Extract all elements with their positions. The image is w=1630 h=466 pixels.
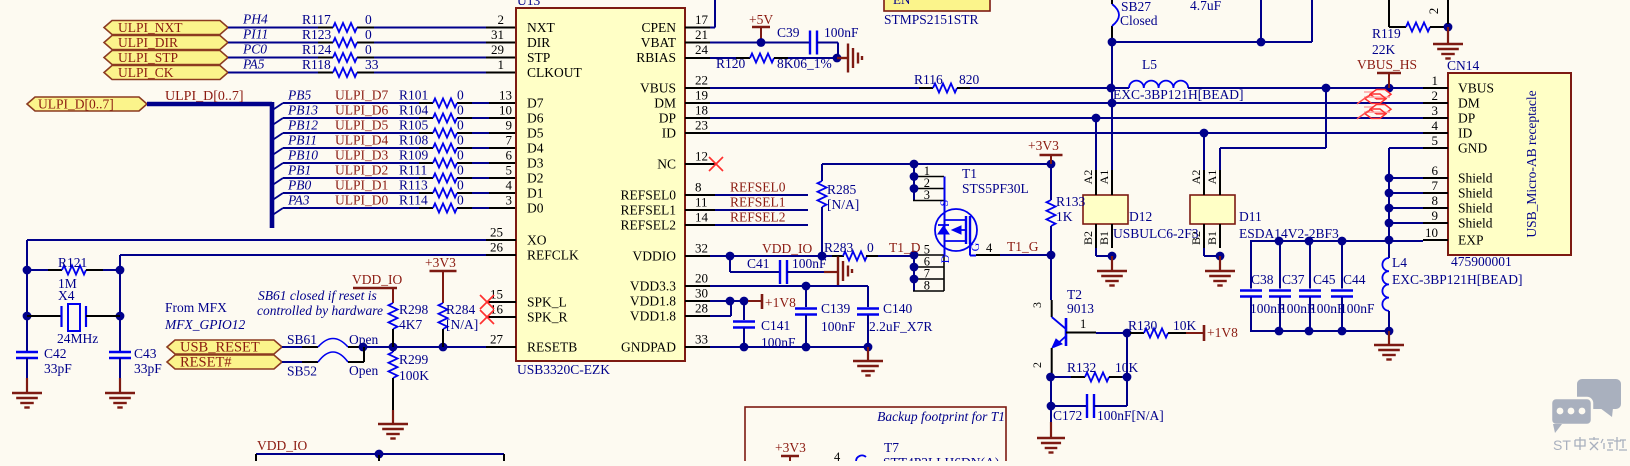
svg-text:MFX_GPIO12: MFX_GPIO12 bbox=[164, 317, 245, 332]
svg-text:R133: R133 bbox=[1056, 194, 1086, 209]
svg-text:PB13: PB13 bbox=[287, 103, 318, 118]
svg-text:VDD3.3: VDD3.3 bbox=[630, 279, 676, 294]
svg-text:D12: D12 bbox=[1129, 209, 1152, 224]
svg-text:19: 19 bbox=[695, 88, 708, 103]
svg-text:100nF: 100nF bbox=[1340, 301, 1375, 316]
svg-text:A2: A2 bbox=[1081, 170, 1095, 185]
svg-text:0: 0 bbox=[457, 178, 464, 193]
svg-text:20: 20 bbox=[695, 271, 708, 286]
svg-text:REFSEL2: REFSEL2 bbox=[730, 210, 786, 225]
svg-text:4: 4 bbox=[986, 241, 993, 255]
svg-text:D1: D1 bbox=[527, 186, 544, 201]
svg-text:10K: 10K bbox=[1173, 318, 1197, 333]
svg-text:R113: R113 bbox=[399, 178, 428, 193]
svg-text:7: 7 bbox=[1432, 178, 1439, 193]
svg-text:CPEN: CPEN bbox=[641, 20, 676, 35]
svg-text:R130: R130 bbox=[1128, 318, 1158, 333]
svg-text:4: 4 bbox=[506, 178, 513, 193]
svg-text:R120: R120 bbox=[716, 56, 746, 71]
svg-text:100nF: 100nF bbox=[761, 335, 796, 350]
svg-text:0: 0 bbox=[365, 12, 372, 27]
svg-text:8K06_1%: 8K06_1% bbox=[777, 56, 832, 71]
svg-text:XO: XO bbox=[527, 233, 547, 248]
svg-text:24MHz: 24MHz bbox=[57, 331, 98, 346]
svg-text:4: 4 bbox=[834, 450, 841, 461]
svg-text:PB12: PB12 bbox=[287, 118, 318, 133]
svg-text:Shield: Shield bbox=[1458, 171, 1493, 186]
svg-text:PB5: PB5 bbox=[287, 88, 311, 103]
svg-text:0: 0 bbox=[365, 42, 372, 57]
svg-text:ULPI_STP: ULPI_STP bbox=[118, 50, 178, 65]
svg-text:10: 10 bbox=[499, 103, 512, 118]
svg-text:REFSEL0: REFSEL0 bbox=[730, 180, 786, 195]
svg-text:29: 29 bbox=[491, 42, 504, 57]
svg-text:8: 8 bbox=[1432, 193, 1439, 208]
svg-text:ULPI_CK: ULPI_CK bbox=[118, 65, 174, 80]
svg-text:R299: R299 bbox=[399, 352, 429, 367]
svg-text:R283: R283 bbox=[824, 240, 854, 255]
svg-text:CN14: CN14 bbox=[1447, 58, 1480, 73]
svg-text:12: 12 bbox=[695, 149, 708, 164]
svg-text:T1_G: T1_G bbox=[1007, 239, 1039, 254]
svg-text:REFSEL0: REFSEL0 bbox=[620, 188, 676, 203]
svg-text:6: 6 bbox=[506, 148, 513, 163]
svg-text:8: 8 bbox=[695, 180, 702, 195]
svg-text:17: 17 bbox=[695, 12, 709, 27]
svg-text:+3V3: +3V3 bbox=[775, 440, 806, 455]
svg-text:USB3320C-EZK: USB3320C-EZK bbox=[517, 362, 610, 377]
svg-text:B2: B2 bbox=[1081, 231, 1095, 245]
svg-text:0: 0 bbox=[457, 118, 464, 133]
svg-text:22K: 22K bbox=[1372, 42, 1396, 57]
svg-text:R132: R132 bbox=[1067, 360, 1096, 375]
svg-text:PB0: PB0 bbox=[287, 178, 311, 193]
svg-text:+3V3: +3V3 bbox=[1028, 138, 1059, 153]
svg-text:C43: C43 bbox=[134, 346, 157, 361]
svg-text:18: 18 bbox=[695, 103, 708, 118]
svg-text:VDD1.8: VDD1.8 bbox=[630, 294, 676, 309]
svg-text:1: 1 bbox=[1432, 73, 1439, 88]
svg-text:USB_RESET: USB_RESET bbox=[180, 340, 260, 356]
svg-text:R123: R123 bbox=[302, 27, 332, 42]
svg-text:3: 3 bbox=[506, 193, 513, 208]
svg-text:0: 0 bbox=[867, 240, 874, 255]
svg-text:0: 0 bbox=[457, 88, 464, 103]
svg-text:8: 8 bbox=[924, 278, 930, 292]
svg-text:USBULC6-2F3: USBULC6-2F3 bbox=[1113, 226, 1199, 241]
svg-text:Closed: Closed bbox=[1120, 13, 1158, 28]
svg-text:CLKOUT: CLKOUT bbox=[527, 65, 582, 80]
svg-text:PI11: PI11 bbox=[242, 27, 268, 42]
svg-text:30: 30 bbox=[695, 286, 708, 301]
svg-text:1: 1 bbox=[1080, 317, 1086, 331]
svg-text:EXP: EXP bbox=[1458, 233, 1484, 248]
svg-text:15: 15 bbox=[490, 287, 503, 302]
svg-text:USB_Micro-AB receptacle: USB_Micro-AB receptacle bbox=[1524, 90, 1539, 237]
svg-text:DIR: DIR bbox=[527, 35, 550, 50]
svg-text:ULPI_D4: ULPI_D4 bbox=[335, 133, 388, 148]
svg-text:ULPI_D6: ULPI_D6 bbox=[335, 103, 388, 118]
svg-text:C172: C172 bbox=[1053, 408, 1082, 423]
svg-text:Shield: Shield bbox=[1458, 216, 1493, 231]
svg-text:ESDA14V2-2BF3: ESDA14V2-2BF3 bbox=[1239, 226, 1339, 241]
svg-text:100nF: 100nF bbox=[792, 256, 827, 271]
svg-text:T7: T7 bbox=[884, 440, 899, 455]
svg-text:1: 1 bbox=[498, 57, 505, 72]
svg-text:C41: C41 bbox=[747, 256, 770, 271]
svg-text:7: 7 bbox=[506, 133, 513, 148]
svg-text:5: 5 bbox=[1432, 133, 1439, 148]
svg-text:RESETB: RESETB bbox=[527, 340, 577, 355]
svg-text:[N/A]: [N/A] bbox=[446, 317, 478, 332]
svg-text:DM: DM bbox=[654, 96, 676, 111]
svg-text:33pF: 33pF bbox=[44, 361, 72, 376]
svg-text:2: 2 bbox=[498, 12, 505, 27]
svg-text:9: 9 bbox=[506, 118, 513, 133]
svg-text:2: 2 bbox=[1030, 362, 1044, 368]
svg-text:33pF: 33pF bbox=[134, 361, 162, 376]
svg-text:9013: 9013 bbox=[1067, 301, 1094, 316]
svg-text:3: 3 bbox=[1030, 302, 1044, 308]
svg-text:2.2uF_X7R: 2.2uF_X7R bbox=[869, 319, 932, 334]
svg-text:VBUS: VBUS bbox=[640, 81, 676, 96]
svg-text:1K: 1K bbox=[1056, 209, 1073, 224]
svg-text:REFSEL1: REFSEL1 bbox=[730, 195, 786, 210]
svg-text:T2: T2 bbox=[1067, 287, 1082, 302]
svg-text:From MFX: From MFX bbox=[165, 300, 227, 315]
svg-text:C45: C45 bbox=[1313, 272, 1336, 287]
svg-text:0: 0 bbox=[457, 163, 464, 178]
svg-text:ULPI_D3: ULPI_D3 bbox=[335, 148, 388, 163]
svg-text:2: 2 bbox=[1426, 8, 1441, 15]
svg-text:PB1: PB1 bbox=[287, 163, 311, 178]
svg-text:VBUS: VBUS bbox=[1458, 81, 1494, 96]
svg-text:VDDIO: VDDIO bbox=[633, 249, 677, 264]
svg-text:R118: R118 bbox=[302, 57, 331, 72]
svg-text:G: G bbox=[968, 242, 982, 251]
svg-text:0: 0 bbox=[457, 193, 464, 208]
svg-text:GND: GND bbox=[1458, 141, 1487, 156]
svg-text:RBIAS: RBIAS bbox=[636, 50, 676, 65]
svg-text:9: 9 bbox=[1432, 208, 1439, 223]
svg-text:ULPI_NXT: ULPI_NXT bbox=[118, 20, 183, 35]
svg-text:D3: D3 bbox=[527, 156, 544, 171]
svg-text:4K7: 4K7 bbox=[399, 317, 422, 332]
svg-text:NXT: NXT bbox=[527, 20, 555, 35]
svg-text:R114: R114 bbox=[399, 193, 428, 208]
svg-text:VDD_IO: VDD_IO bbox=[762, 241, 812, 256]
svg-text:C42: C42 bbox=[44, 346, 67, 361]
svg-text:+5V: +5V bbox=[749, 12, 773, 27]
svg-text:ULPI_D0: ULPI_D0 bbox=[335, 193, 388, 208]
svg-text:RESET#: RESET# bbox=[180, 355, 232, 371]
svg-text:PC0: PC0 bbox=[242, 42, 267, 57]
svg-text:33: 33 bbox=[695, 332, 708, 347]
svg-text:31: 31 bbox=[491, 27, 504, 42]
svg-text:C37: C37 bbox=[1282, 272, 1305, 287]
svg-text:X4: X4 bbox=[58, 288, 75, 303]
svg-text:A2: A2 bbox=[1189, 170, 1203, 185]
svg-text:ST: ST bbox=[1553, 437, 1571, 453]
svg-text:ULPI_D[0..7]: ULPI_D[0..7] bbox=[38, 97, 114, 112]
svg-text:+1V8: +1V8 bbox=[765, 295, 796, 310]
svg-text:R111: R111 bbox=[399, 163, 427, 178]
svg-text:D2: D2 bbox=[527, 171, 544, 186]
svg-text:DP: DP bbox=[1458, 111, 1475, 126]
svg-text:820: 820 bbox=[959, 72, 980, 87]
svg-text:22: 22 bbox=[695, 73, 708, 88]
svg-text:SB61: SB61 bbox=[287, 332, 317, 347]
svg-text:PA3: PA3 bbox=[287, 193, 310, 208]
svg-text:R109: R109 bbox=[399, 148, 429, 163]
svg-text:B1: B1 bbox=[1205, 231, 1219, 245]
svg-text:VBAT: VBAT bbox=[641, 35, 677, 50]
svg-text:21: 21 bbox=[695, 27, 708, 42]
svg-text:27: 27 bbox=[490, 332, 504, 347]
svg-text:ID: ID bbox=[1458, 126, 1472, 141]
svg-text:T1: T1 bbox=[962, 166, 977, 181]
svg-text:33: 33 bbox=[365, 57, 379, 72]
svg-text:Backup footprint for T1: Backup footprint for T1 bbox=[877, 409, 1005, 424]
svg-text:0: 0 bbox=[457, 133, 464, 148]
svg-text:100nF[N/A]: 100nF[N/A] bbox=[1097, 408, 1164, 423]
svg-text:D6: D6 bbox=[527, 111, 544, 126]
svg-text:D: D bbox=[938, 254, 952, 263]
svg-text:DP: DP bbox=[659, 111, 676, 126]
svg-text:VDD_IO: VDD_IO bbox=[352, 272, 402, 287]
svg-text:100nF: 100nF bbox=[821, 319, 856, 334]
svg-text:GNDPAD: GNDPAD bbox=[621, 340, 676, 355]
svg-text:STT4P3LLH6DN(A): STT4P3LLH6DN(A) bbox=[883, 455, 999, 461]
svg-text:+3V3: +3V3 bbox=[425, 255, 456, 270]
svg-text:+1V8: +1V8 bbox=[1207, 325, 1238, 340]
svg-text:Open: Open bbox=[349, 332, 378, 347]
svg-text:R119: R119 bbox=[1372, 26, 1401, 41]
svg-text:A1: A1 bbox=[1205, 170, 1219, 185]
svg-text:NC: NC bbox=[657, 157, 676, 172]
svg-text:R108: R108 bbox=[399, 133, 429, 148]
svg-text:24: 24 bbox=[695, 42, 709, 57]
svg-text:S: S bbox=[937, 200, 951, 207]
svg-text:C140: C140 bbox=[883, 301, 913, 316]
svg-text:R105: R105 bbox=[399, 118, 429, 133]
svg-text:C44: C44 bbox=[1343, 272, 1366, 287]
svg-text:28: 28 bbox=[695, 301, 708, 316]
svg-text:R285: R285 bbox=[827, 182, 857, 197]
svg-text:4.7uF: 4.7uF bbox=[1190, 0, 1222, 13]
svg-text:T1_D: T1_D bbox=[889, 240, 921, 255]
svg-text:D7: D7 bbox=[527, 96, 544, 111]
svg-text:26: 26 bbox=[490, 240, 504, 255]
svg-text:6: 6 bbox=[1432, 163, 1439, 178]
svg-text:C39: C39 bbox=[777, 25, 800, 40]
svg-text:C38: C38 bbox=[1251, 272, 1274, 287]
svg-text:14: 14 bbox=[695, 210, 709, 225]
svg-text:2: 2 bbox=[1432, 88, 1439, 103]
svg-text:Shield: Shield bbox=[1458, 186, 1493, 201]
svg-text:REFSEL1: REFSEL1 bbox=[620, 203, 676, 218]
svg-text:DM: DM bbox=[1458, 96, 1480, 111]
svg-text:R101: R101 bbox=[399, 88, 428, 103]
svg-text:0: 0 bbox=[457, 103, 464, 118]
svg-text:10K: 10K bbox=[1115, 360, 1139, 375]
svg-text:EXC-3BP121H[BEAD]: EXC-3BP121H[BEAD] bbox=[1113, 87, 1244, 102]
svg-text:VDD1.8: VDD1.8 bbox=[630, 309, 676, 324]
svg-text:D0: D0 bbox=[527, 201, 544, 216]
svg-text:D5: D5 bbox=[527, 126, 544, 141]
svg-text:ULPI_D2: ULPI_D2 bbox=[335, 163, 388, 178]
svg-text:PA5: PA5 bbox=[242, 57, 265, 72]
svg-text:C141: C141 bbox=[761, 318, 790, 333]
svg-text:VDD_IO: VDD_IO bbox=[257, 438, 307, 453]
svg-text:B1: B1 bbox=[1097, 231, 1111, 245]
svg-text:PH4: PH4 bbox=[242, 12, 268, 27]
svg-text:4: 4 bbox=[1432, 118, 1439, 133]
svg-text:Shield: Shield bbox=[1458, 201, 1493, 216]
svg-text:SB61 closed if reset is: SB61 closed if reset is bbox=[258, 288, 377, 303]
svg-text:STP: STP bbox=[527, 50, 550, 65]
svg-text:ID: ID bbox=[662, 126, 676, 141]
svg-text:5: 5 bbox=[506, 163, 513, 178]
svg-text:100K: 100K bbox=[399, 368, 429, 383]
svg-text:16: 16 bbox=[490, 302, 504, 317]
svg-text:SPK_L: SPK_L bbox=[527, 295, 567, 310]
svg-text:11: 11 bbox=[695, 195, 708, 210]
svg-text:25: 25 bbox=[490, 225, 503, 240]
svg-text:PB11: PB11 bbox=[287, 133, 317, 148]
svg-text:PB10: PB10 bbox=[287, 148, 318, 163]
svg-text:REFCLK: REFCLK bbox=[527, 248, 579, 263]
svg-text:3: 3 bbox=[924, 188, 930, 202]
svg-text:32: 32 bbox=[695, 241, 708, 256]
svg-text:C139: C139 bbox=[821, 301, 851, 316]
svg-text:Open: Open bbox=[349, 363, 378, 378]
svg-text:EXC-3BP121H[BEAD]: EXC-3BP121H[BEAD] bbox=[1392, 272, 1523, 287]
svg-text:ULPI_D[0..7]: ULPI_D[0..7] bbox=[165, 89, 244, 104]
svg-text:A1: A1 bbox=[1097, 170, 1111, 185]
svg-text:10: 10 bbox=[1425, 225, 1438, 240]
svg-text:100nF: 100nF bbox=[824, 25, 859, 40]
svg-text:EN: EN bbox=[893, 0, 911, 7]
svg-text:controlled by hardware: controlled by hardware bbox=[257, 303, 383, 318]
svg-text:R284: R284 bbox=[446, 302, 476, 317]
svg-text:R104: R104 bbox=[399, 103, 429, 118]
svg-text:ULPI_D7: ULPI_D7 bbox=[335, 88, 388, 103]
svg-text:SPK_R: SPK_R bbox=[527, 310, 568, 325]
svg-text:L5: L5 bbox=[1142, 57, 1157, 72]
svg-text:STMPS2151STR: STMPS2151STR bbox=[884, 12, 979, 27]
svg-text:D4: D4 bbox=[527, 141, 544, 156]
svg-text:R124: R124 bbox=[302, 42, 332, 57]
svg-text:REFSEL2: REFSEL2 bbox=[620, 218, 676, 233]
svg-text:ULPI_D1: ULPI_D1 bbox=[335, 178, 388, 193]
svg-text:13: 13 bbox=[499, 88, 512, 103]
svg-text:475900001: 475900001 bbox=[1451, 254, 1512, 269]
svg-text:23: 23 bbox=[695, 118, 708, 133]
svg-text:ULPI_DIR: ULPI_DIR bbox=[118, 35, 178, 50]
svg-text:R117: R117 bbox=[302, 12, 331, 27]
svg-text:0: 0 bbox=[365, 27, 372, 42]
svg-text:L4: L4 bbox=[1392, 255, 1407, 270]
svg-text:SB27: SB27 bbox=[1121, 0, 1151, 14]
svg-text:R298: R298 bbox=[399, 302, 429, 317]
svg-text:VBUS_HS: VBUS_HS bbox=[1357, 57, 1417, 72]
svg-text:U13: U13 bbox=[517, 0, 540, 8]
svg-text:3: 3 bbox=[1432, 103, 1439, 118]
svg-text:[N/A]: [N/A] bbox=[827, 197, 859, 212]
svg-text:SB52: SB52 bbox=[287, 364, 317, 379]
svg-text:STS5PF30L: STS5PF30L bbox=[962, 181, 1029, 196]
svg-text:ULPI_D5: ULPI_D5 bbox=[335, 118, 388, 133]
svg-text:0: 0 bbox=[457, 148, 464, 163]
svg-text:D11: D11 bbox=[1239, 209, 1262, 224]
svg-text:R116: R116 bbox=[914, 72, 943, 87]
svg-text:R121: R121 bbox=[58, 255, 87, 270]
